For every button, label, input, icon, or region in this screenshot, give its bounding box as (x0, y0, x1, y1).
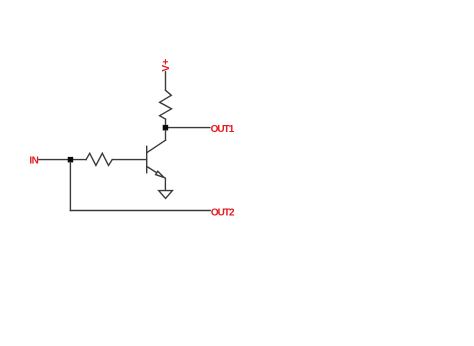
wire emitter to ground (164, 178, 166, 190)
wire R2 to base (112, 159, 147, 161)
wire R1 to node OUT1 (165, 119, 167, 128)
wire node to OUT1 label (166, 127, 210, 129)
wire bottom run to OUT2 (70, 210, 210, 212)
transistor Q1 emitter lead (147, 167, 165, 179)
wire input node down (69, 162, 71, 210)
transistor Q1 collector lead (147, 140, 165, 152)
transistor Q1 emitter arrow (156, 171, 164, 177)
node junction (input node) (68, 157, 74, 163)
svg-text:V+: V+ (160, 59, 172, 72)
node junction (collector node) (163, 125, 169, 130)
transistor Q1 base bar (146, 146, 148, 172)
wire node to resistor R2 (70, 159, 86, 161)
svg-text:OUT2: OUT2 (211, 207, 235, 218)
wire IN to node (39, 159, 71, 161)
ground (159, 191, 173, 199)
wire node to collector (165, 130, 167, 140)
wire V+ stem (165, 72, 167, 91)
resistor R2 (horizontal, base) (86, 153, 112, 165)
svg-text:OUT1: OUT1 (211, 124, 235, 135)
svg-text:IN: IN (29, 156, 38, 167)
resistor R1 (vertical) (160, 90, 172, 119)
